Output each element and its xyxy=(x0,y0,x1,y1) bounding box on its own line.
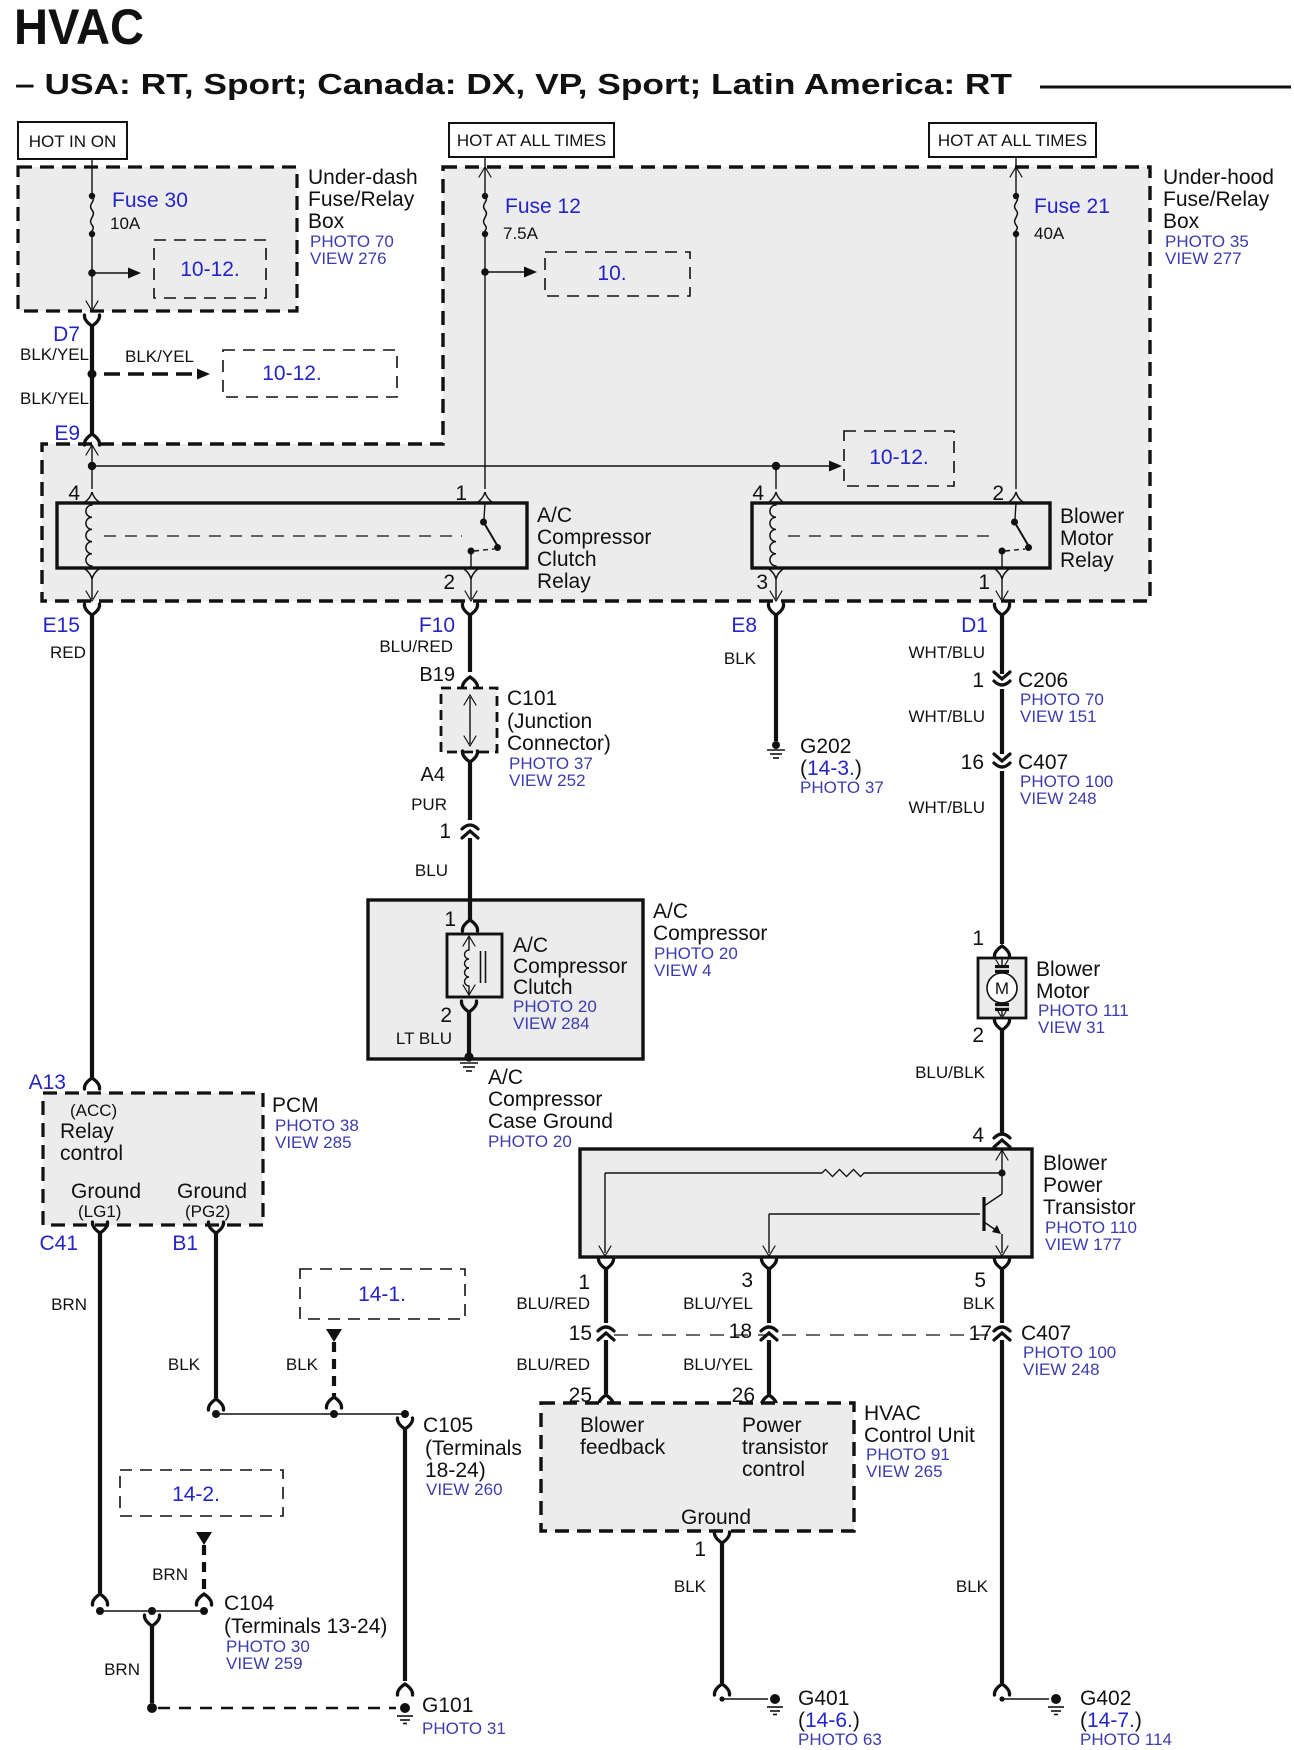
svg-text:C105: C105 xyxy=(423,1414,473,1437)
svg-text:Compressor: Compressor xyxy=(537,526,651,549)
svg-text:BLK: BLK xyxy=(724,649,757,668)
svg-text:4: 4 xyxy=(68,482,80,505)
svg-text:Relay: Relay xyxy=(537,570,591,593)
svg-text:Ground: Ground xyxy=(71,1180,141,1203)
svg-text:Fuse 12: Fuse 12 xyxy=(505,195,581,218)
svg-text:Fuse/Relay: Fuse/Relay xyxy=(1163,188,1270,211)
svg-text:10-12.: 10-12. xyxy=(869,446,929,469)
svg-text:10.: 10. xyxy=(597,262,626,285)
svg-text:E9: E9 xyxy=(54,422,80,445)
svg-text:C101: C101 xyxy=(507,687,557,710)
svg-text:3: 3 xyxy=(741,1269,753,1292)
svg-text:Case Ground: Case Ground xyxy=(488,1110,613,1133)
svg-text:(14-7.): (14-7.) xyxy=(1080,1709,1142,1732)
svg-text:VIEW 252: VIEW 252 xyxy=(509,771,586,790)
svg-text:C407: C407 xyxy=(1021,1322,1071,1345)
svg-text:1: 1 xyxy=(444,908,456,931)
svg-text:1: 1 xyxy=(439,820,451,843)
svg-text:Motor: Motor xyxy=(1036,980,1090,1003)
svg-text:– USA: RT, Sport; Canada: DX,: – USA: RT, Sport; Canada: DX, VP, Sport;… xyxy=(15,69,1012,101)
svg-text:C407: C407 xyxy=(1018,751,1068,774)
svg-text:A/C: A/C xyxy=(537,504,572,527)
svg-text:BLU: BLU xyxy=(415,861,448,880)
svg-text:control: control xyxy=(60,1142,123,1165)
svg-text:Blower: Blower xyxy=(1060,505,1124,528)
svg-text:Under-dash: Under-dash xyxy=(308,166,418,189)
svg-text:VIEW 260: VIEW 260 xyxy=(426,1480,503,1499)
svg-text:BLK: BLK xyxy=(168,1355,201,1374)
svg-text:(LG1): (LG1) xyxy=(78,1202,121,1221)
svg-text:PHOTO 20: PHOTO 20 xyxy=(488,1132,572,1151)
svg-text:BLU/YEL: BLU/YEL xyxy=(683,1294,753,1313)
svg-text:HOT IN ON: HOT IN ON xyxy=(29,132,117,151)
svg-text:BLU/RED: BLU/RED xyxy=(516,1294,590,1313)
svg-text:40A: 40A xyxy=(1034,224,1065,243)
svg-text:14-2.: 14-2. xyxy=(172,1483,220,1506)
svg-text:Control Unit: Control Unit xyxy=(864,1424,975,1447)
svg-text:(Terminals 13-24): (Terminals 13-24) xyxy=(224,1615,387,1638)
svg-text:B19: B19 xyxy=(419,664,455,686)
svg-text:2: 2 xyxy=(440,1004,452,1027)
svg-text:Fuse 30: Fuse 30 xyxy=(112,189,188,212)
svg-text:2: 2 xyxy=(443,571,455,594)
svg-text:(14-6.): (14-6.) xyxy=(798,1709,860,1732)
svg-text:BLK: BLK xyxy=(956,1577,989,1596)
svg-text:10-12.: 10-12. xyxy=(262,362,322,385)
svg-text:PHOTO 31: PHOTO 31 xyxy=(422,1719,506,1738)
svg-text:1: 1 xyxy=(455,482,467,505)
svg-text:10A: 10A xyxy=(110,214,141,233)
svg-text:14-1.: 14-1. xyxy=(358,1283,406,1306)
svg-text:A/C: A/C xyxy=(653,900,688,923)
svg-text:1: 1 xyxy=(578,1271,590,1294)
svg-text:17: 17 xyxy=(969,1322,992,1345)
svg-text:16: 16 xyxy=(961,751,984,774)
svg-text:Relay: Relay xyxy=(1060,549,1114,572)
svg-text:VIEW 248: VIEW 248 xyxy=(1023,1360,1100,1379)
svg-text:Under-hood: Under-hood xyxy=(1163,166,1274,189)
svg-text:VIEW 265: VIEW 265 xyxy=(866,1462,943,1481)
svg-text:HOT AT ALL TIMES: HOT AT ALL TIMES xyxy=(457,131,606,150)
svg-text:transistor: transistor xyxy=(742,1436,828,1459)
svg-text:LT BLU: LT BLU xyxy=(396,1029,452,1048)
svg-text:BLK/YEL: BLK/YEL xyxy=(20,345,89,364)
svg-text:E8: E8 xyxy=(731,614,757,637)
svg-text:VIEW 276: VIEW 276 xyxy=(310,249,387,268)
svg-text:Ground: Ground xyxy=(681,1506,751,1529)
svg-text:VIEW 285: VIEW 285 xyxy=(275,1133,352,1152)
svg-text:A/C: A/C xyxy=(513,934,548,957)
svg-text:WHT/BLU: WHT/BLU xyxy=(909,643,986,662)
svg-text:Transistor: Transistor xyxy=(1043,1196,1136,1219)
svg-text:BLK: BLK xyxy=(963,1294,996,1313)
svg-text:BLU/BLK: BLU/BLK xyxy=(915,1063,986,1082)
svg-text:PHOTO 37: PHOTO 37 xyxy=(800,778,884,797)
svg-text:Compressor: Compressor xyxy=(653,922,767,945)
svg-text:PCM: PCM xyxy=(272,1094,319,1117)
svg-text:VIEW 177: VIEW 177 xyxy=(1045,1235,1122,1254)
svg-text:Clutch: Clutch xyxy=(513,976,573,999)
svg-text:BRN: BRN xyxy=(104,1660,140,1679)
svg-text:18: 18 xyxy=(729,1320,752,1343)
svg-text:1: 1 xyxy=(972,927,984,950)
svg-text:A13: A13 xyxy=(29,1071,66,1094)
svg-text:control: control xyxy=(742,1458,805,1481)
svg-text:Fuse/Relay: Fuse/Relay xyxy=(308,188,415,211)
svg-text:Compressor: Compressor xyxy=(513,955,627,978)
svg-text:Box: Box xyxy=(308,210,345,233)
svg-text:Blower: Blower xyxy=(1036,958,1100,981)
svg-text:3: 3 xyxy=(756,571,768,594)
svg-text:WHT/BLU: WHT/BLU xyxy=(909,798,986,817)
svg-text:Blower: Blower xyxy=(1043,1152,1107,1175)
svg-text:Power: Power xyxy=(742,1414,802,1437)
svg-text:G101: G101 xyxy=(422,1694,473,1717)
svg-text:1: 1 xyxy=(978,571,990,594)
svg-text:18-24): 18-24) xyxy=(425,1459,486,1482)
svg-text:A/C: A/C xyxy=(488,1066,523,1089)
svg-text:C206: C206 xyxy=(1018,669,1068,692)
svg-text:BRN: BRN xyxy=(152,1565,188,1584)
svg-text:G402: G402 xyxy=(1080,1687,1131,1710)
svg-text:Ground: Ground xyxy=(177,1180,247,1203)
svg-text:4: 4 xyxy=(752,482,764,505)
svg-text:RED: RED xyxy=(50,643,86,662)
svg-text:1: 1 xyxy=(694,1538,706,1561)
svg-text:Clutch: Clutch xyxy=(537,548,597,571)
svg-text:G202: G202 xyxy=(800,735,851,758)
svg-text:BLU/RED: BLU/RED xyxy=(379,637,453,656)
svg-text:BLU/RED: BLU/RED xyxy=(516,1355,590,1374)
svg-text:WHT/BLU: WHT/BLU xyxy=(909,707,986,726)
svg-text:D7: D7 xyxy=(53,323,80,346)
svg-text:BRN: BRN xyxy=(51,1295,87,1314)
svg-text:(ACC): (ACC) xyxy=(70,1101,117,1120)
svg-text:M: M xyxy=(995,979,1009,998)
svg-text:PHOTO 114: PHOTO 114 xyxy=(1080,1730,1172,1749)
svg-text:PHOTO 63: PHOTO 63 xyxy=(798,1730,882,1749)
svg-text:VIEW 248: VIEW 248 xyxy=(1020,789,1097,808)
svg-text:2: 2 xyxy=(992,482,1004,505)
svg-text:15: 15 xyxy=(569,1322,592,1345)
svg-text:HOT AT ALL TIMES: HOT AT ALL TIMES xyxy=(938,131,1087,150)
svg-text:BLK: BLK xyxy=(286,1355,319,1374)
svg-text:4: 4 xyxy=(972,1124,984,1147)
svg-text:10-12.: 10-12. xyxy=(180,258,240,281)
svg-text:A4: A4 xyxy=(421,764,445,786)
svg-text:B1: B1 xyxy=(172,1232,198,1255)
svg-text:Box: Box xyxy=(1163,210,1200,233)
svg-text:VIEW 259: VIEW 259 xyxy=(226,1654,303,1673)
svg-text:C41: C41 xyxy=(39,1232,78,1255)
svg-text:1: 1 xyxy=(972,669,984,692)
svg-text:E15: E15 xyxy=(43,614,80,637)
svg-text:VIEW 284: VIEW 284 xyxy=(513,1014,590,1033)
svg-text:feedback: feedback xyxy=(580,1436,666,1459)
svg-text:HVAC: HVAC xyxy=(14,0,144,55)
svg-text:HVAC: HVAC xyxy=(864,1402,921,1425)
svg-text:Relay: Relay xyxy=(60,1120,114,1143)
svg-text:(14-3.): (14-3.) xyxy=(800,757,862,780)
svg-text:C104: C104 xyxy=(224,1592,275,1615)
svg-text:BLK/YEL: BLK/YEL xyxy=(20,389,89,408)
svg-text:G401: G401 xyxy=(798,1687,849,1710)
svg-text:2: 2 xyxy=(972,1024,984,1047)
svg-text:(Terminals: (Terminals xyxy=(425,1437,522,1460)
svg-text:7.5A: 7.5A xyxy=(503,224,539,243)
svg-text:VIEW 4: VIEW 4 xyxy=(654,961,712,980)
svg-text:VIEW 277: VIEW 277 xyxy=(1165,249,1242,268)
svg-text:Compressor: Compressor xyxy=(488,1088,602,1111)
svg-text:Motor: Motor xyxy=(1060,527,1114,550)
svg-text:Connector): Connector) xyxy=(507,732,611,755)
svg-text:VIEW 151: VIEW 151 xyxy=(1020,707,1097,726)
svg-text:BLK: BLK xyxy=(674,1577,707,1596)
svg-text:Fuse 21: Fuse 21 xyxy=(1034,195,1110,218)
svg-text:F10: F10 xyxy=(419,614,455,637)
svg-text:BLK/YEL: BLK/YEL xyxy=(125,347,194,366)
svg-text:Blower: Blower xyxy=(580,1414,644,1437)
svg-text:VIEW 31: VIEW 31 xyxy=(1038,1018,1105,1037)
svg-text:(PG2): (PG2) xyxy=(185,1202,230,1221)
svg-text:D1: D1 xyxy=(961,614,988,637)
svg-text:PUR: PUR xyxy=(411,795,447,814)
svg-text:Power: Power xyxy=(1043,1174,1103,1197)
svg-text:BLU/YEL: BLU/YEL xyxy=(683,1355,753,1374)
svg-text:(Junction: (Junction xyxy=(507,710,592,733)
svg-text:5: 5 xyxy=(974,1269,986,1292)
